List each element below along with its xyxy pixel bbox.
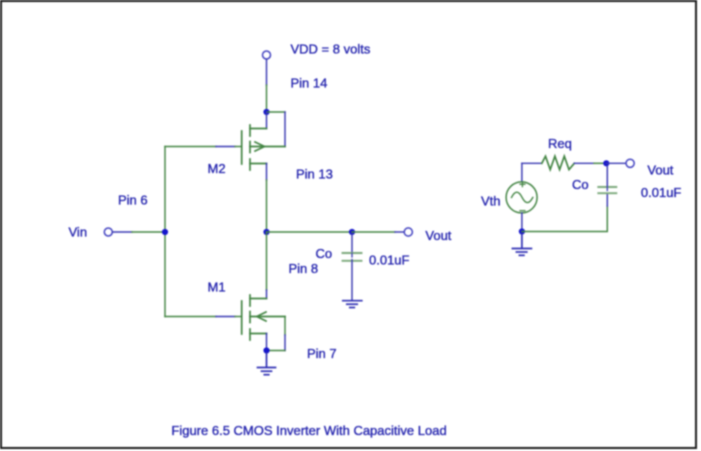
svg-text:Pin 6: Pin 6 — [118, 193, 148, 208]
wire VDD lead (navy) — [266, 60, 268, 86]
wire Vout lead navy — [395, 231, 404, 233]
wire Vin to bus green — [132, 231, 165, 233]
wire M1 bulk connect vertical — [284, 317, 286, 336]
svg-text:Vin: Vin — [69, 225, 88, 240]
svg-text:VDD = 8 volts: VDD = 8 volts — [291, 42, 371, 57]
capacitor Co right plates — [598, 187, 616, 193]
wire M2 gate lead green — [165, 146, 216, 148]
capacitor Co right lead bottom navy — [606, 195, 608, 207]
wire M1 gate lead navy — [216, 316, 235, 318]
wire bottom net right circuit — [522, 206, 607, 232]
svg-text:Pin 8: Pin 8 — [289, 261, 319, 276]
wire M2 gate lead navy — [216, 146, 235, 148]
svg-text:Pin 13: Pin 13 — [296, 167, 333, 182]
terminal Vout left — [404, 228, 412, 236]
junction dot right node — [603, 160, 609, 166]
wire right Vout lead — [606, 162, 625, 164]
terminal VDD — [263, 51, 271, 59]
wire Vin lead navy — [113, 231, 133, 233]
wire M1 gate lead green — [165, 316, 216, 318]
transistor M1 drain lead — [266, 290, 268, 299]
terminal Vout right — [626, 159, 634, 167]
svg-text:Vout: Vout — [425, 228, 451, 243]
ground Vth — [512, 234, 531, 255]
source Vth — [506, 182, 537, 213]
wire M2 bulk connect vertical — [284, 112, 286, 147]
capacitor Co lead top — [351, 234, 353, 252]
wire Vth bottom lead — [521, 213, 523, 232]
transistor M2 drain lead — [266, 112, 268, 129]
terminal Vin — [104, 228, 112, 236]
capacitor Co right lead top — [606, 166, 608, 186]
wire M1 bulk connect horizontal — [267, 350, 286, 352]
svg-text:Pin 7: Pin 7 — [307, 346, 337, 361]
junction dot M1 source node — [263, 347, 269, 353]
transistor M2 source lead — [266, 164, 268, 181]
svg-text:Figure 6.5 CMOS Inverter With: Figure 6.5 CMOS Inverter With Capacitive… — [171, 423, 446, 438]
transistor M1 source lead — [266, 334, 268, 351]
svg-text:0.01uF: 0.01uF — [369, 253, 410, 268]
resistor Req — [542, 156, 575, 169]
svg-text:Co: Co — [572, 177, 589, 192]
junction dot Vth bottom — [519, 228, 525, 234]
capacitor Co plates — [343, 253, 362, 261]
svg-text:M1: M1 — [208, 280, 226, 295]
capacitor Co lead bottom — [351, 262, 353, 300]
wire to cap node right green — [594, 162, 606, 164]
wire input bus vertical — [164, 147, 166, 317]
junction dot node VDD — [263, 109, 269, 115]
svg-text:Pin 14: Pin 14 — [291, 76, 328, 91]
wire resistor right lead — [574, 162, 594, 164]
junction dot cap node — [349, 229, 355, 235]
ground M1 — [258, 353, 276, 375]
junction dot Vin bus — [162, 229, 168, 235]
wire M2 source to output node — [266, 180, 268, 232]
wire VDD to node (green) — [266, 85, 268, 110]
capacitor Co center tick — [351, 254, 353, 261]
svg-text:M2: M2 — [208, 161, 226, 176]
ground Co — [343, 301, 362, 308]
wire M2 bulk connect horizontal — [267, 111, 286, 113]
svg-text:Vout: Vout — [647, 163, 673, 178]
wire M1 bulk connect vertical navy — [284, 335, 286, 351]
wire output node to cap node — [267, 231, 353, 233]
wire output node down to M1 — [266, 232, 268, 290]
svg-text:0.01uF: 0.01uF — [641, 185, 682, 200]
wire cap node to Vout green — [352, 231, 395, 233]
transistor M1 body — [242, 295, 285, 340]
transistor M2 body — [242, 125, 285, 170]
capacitor Co right center tick — [606, 188, 608, 191]
svg-text:Co: Co — [316, 246, 333, 261]
junction dot output node — [263, 229, 269, 235]
svg-text:Req: Req — [548, 136, 572, 151]
wire Vth top lead — [521, 163, 523, 181]
svg-text:Vth: Vth — [481, 194, 501, 209]
wire resistor left lead — [522, 162, 542, 164]
